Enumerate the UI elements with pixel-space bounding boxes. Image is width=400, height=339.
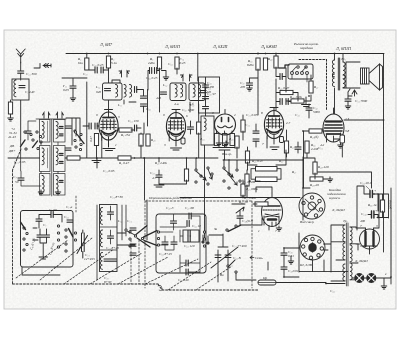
svg-text:+: + [375,209,377,213]
capacitor C23 left of can2 [161,92,167,94]
wire lever links [117,231,135,245]
coils in box2 [100,208,102,225]
wire wafer verticals [196,151,237,248]
mixer grid switch column [66,118,80,145]
wire C20 link [89,69,109,71]
svg-text:R₂₆: R₂₆ [228,137,234,141]
capacitor C48 [281,253,287,255]
antenna plug arrows [34,64,51,69]
trimmer caps B2 [60,154,64,164]
svg-text:R₁₃: R₁₃ [199,137,205,141]
wire can1 to tube [109,68,148,126]
ground right of R28 [327,177,333,182]
svg-text:7: 7 [360,224,362,228]
oscillator coil box B3 [54,174,66,196]
ground under R3 [92,146,101,163]
volume control area: resistor R24 [184,169,188,181]
dial lamps [355,273,376,282]
oscillator coil box B1 [54,120,66,143]
wire switch feed down [97,158,145,200]
resistor R6 horizontal [119,128,132,132]
ground C47 [247,86,253,91]
svg-text:L₁₀: L₁₀ [95,85,101,89]
wire inside mode box [160,214,200,273]
svg-text:ДВ: ДВ [9,144,14,148]
switch wafer A circles [195,169,197,171]
capacitor C26 in can3 [203,85,209,87]
svg-text:С₃₉ 1000: С₃₉ 1000 [182,108,195,112]
svg-text:R₆ 152: R₆ 152 [120,133,130,137]
inner cap box [183,230,199,242]
wire box1 [22,215,62,276]
tuning arrows can1 [119,71,130,77]
svg-text:50: 50 [15,180,19,184]
svg-text:С₆₄₀: С₆₄₀ [361,212,368,216]
wire right outer vertical [390,188,392,284]
svg-text:R₂₈: R₂₈ [150,138,156,142]
tube L7 tuning eye 6E1P [262,193,283,227]
svg-text:С₅₁: С₅₁ [318,146,323,150]
svg-text:С₄₉0.01: С₄₉0.01 [288,269,299,273]
wire C54 [347,92,349,104]
svg-text:С₃₅: С₃₅ [64,215,69,219]
svg-text:С₉ 50: С₉ 50 [49,208,57,212]
extra dashed diagonal to C17 [168,262,232,290]
coil L1 input tank [14,80,16,97]
svg-text:R₂₁: R₂₁ [313,85,318,89]
band coil box 2 [100,205,118,272]
wire tank down [11,100,21,140]
capacitor C20 [95,67,97,73]
svg-text:0.25: 0.25 [180,61,186,65]
svg-text:1: 1 [115,143,117,147]
svg-text:С₁₀: С₁₀ [150,171,155,175]
contacts outside box1 [74,232,76,234]
capacitor near R20 [280,74,282,80]
tuning arrows can2 [181,75,193,81]
capacitor C28 in can3 [203,97,209,99]
svg-text:61к: 61к [78,61,83,65]
tube L1 ground [103,137,115,151]
svg-text:Л₂ 6И1П: Л₂ 6И1П [164,44,181,49]
svg-text:R₂₄: R₂₄ [289,145,295,149]
svg-text:С₁₆ 8+20: С₁₆ 8+20 [106,246,119,250]
caps below box [186,260,188,266]
svg-text:41-43: 41-43 [8,135,16,139]
IF transformer 1 secondary coils [124,85,126,98]
resistor R18 [263,58,267,70]
svg-text:С₁₄: С₁₄ [127,219,132,223]
wire detector area [276,68,311,118]
capacitor C30 pair [150,68,152,74]
tube L5 6P1P output [323,108,344,142]
junction dot [257,53,259,55]
resistor R26 [235,136,239,148]
tube L1 grid cap bar [105,110,113,113]
resistor R19 [256,58,260,70]
antenna selector contacts [24,131,26,133]
wire R20 down [276,54,286,111]
svg-text:С₃₄ 130: С₃₄ 130 [128,119,139,123]
capacitor C47 [247,83,253,85]
tube L4 grid cap [270,108,278,111]
svg-text:+: + [374,189,376,193]
IF can 2 box B [189,83,205,101]
svg-text:6: 6 [186,114,188,118]
resistor between T3 T4 [241,120,245,132]
svg-text:С₁₂ 390: С₁₂ 390 [26,72,37,76]
wire R19 down [250,69,259,115]
capacitor near antenna selector [25,131,31,133]
verticals right of box2 [97,205,126,280]
wire bottom right bus [326,220,391,284]
capacitor C10 4.7 [156,175,162,177]
wire AGC bus [8,157,218,159]
wire stage1 verticals [83,123,144,158]
curl at dashed joint [158,285,162,290]
svg-text:С₃₃ 8+25: С₃₃ 8+25 [159,252,172,256]
speaker connection box [346,62,360,88]
svg-text:L₁₃: L₁₃ [189,103,195,107]
switch circles box1 right wafer [57,225,59,227]
capacitor C33 pair [89,123,91,129]
phono switch [226,229,228,231]
svg-text:С₃₄ 120: С₃₄ 120 [184,244,195,248]
svg-text:R₂₀: R₂₀ [267,57,273,61]
resistor R27 grid horizontal [309,129,322,133]
variable capacitor C17 main [211,247,238,272]
svg-text:Выход: Выход [389,200,393,209]
oscillator coil box A3 [40,174,51,196]
svg-text:R₂₇(б): R₂₇(б) [309,135,319,139]
capacitor C63 [370,191,372,198]
transformer Tr2 [343,225,345,242]
capacitor C32 [187,221,189,227]
oscillator coil box A2 [40,146,51,172]
svg-text:400: 400 [360,219,365,223]
svg-text:Л₁ 6И7: Л₁ 6И7 [99,42,113,47]
svg-text:С₆₆: С₆₆ [330,289,335,293]
ground under R1 [8,116,14,121]
capacitor C35 C36 [67,220,73,222]
switch circles box1 left [23,227,25,229]
svg-text:С₂₂ В: С₂₂ В [233,256,241,260]
wire C63 area [357,186,389,230]
svg-text:12+495: 12+495 [84,257,95,261]
rectifier tube L6 [360,228,380,250]
svg-text:820к: 820к [247,63,254,67]
svg-text:Пр: Пр [262,276,267,280]
resistor R2 horizontal on AGC bus [118,156,131,160]
tube L2 ground [171,138,182,151]
ground under C10 [154,177,187,187]
wire C10 R24 tops [159,158,187,175]
svg-text:R₂₂ 0.47: R₂₂ 0.47 [277,86,290,90]
capacitor C26 right of can2 [200,91,206,93]
dashed linkage diagonals [16,238,198,284]
lever box1 left [21,222,26,230]
svg-text:4.7: 4.7 [152,176,157,180]
svg-text:420: 420 [156,96,161,100]
switch contacts mid [74,130,76,132]
dashed verticals mid bottom [76,196,139,284]
svg-text:С₄.₅: С₄.₅ [13,175,19,179]
dashed enclosure bottom second [158,284,258,290]
svg-text:240к: 240к [148,61,155,65]
capacitor column left of lever [65,126,71,128]
wire socket2 to tr2 [299,233,348,272]
svg-text:L₁₁: L₁₁ [117,103,122,107]
wire L2 plate [190,102,199,158]
resistor R9 [106,56,110,68]
capacitor C50 [306,108,312,110]
svg-text:ДВ+: ДВ+ [8,149,16,153]
capacitor pair T3 T4 [253,131,259,133]
Tr2 taps [331,225,360,281]
resistor R13 right of L2 [197,122,201,134]
capacitor C7 [36,219,42,221]
transformer Tr1 [332,60,334,77]
wire C48 area [284,248,299,277]
wire left bank tops [21,119,66,196]
svg-text:С₁₃ 8+30: С₁₃ 8+30 [110,195,123,199]
capacitor C11 grid [70,86,76,88]
resistor R28-20 horizontal [310,177,323,181]
capacitor C39 under L7 [237,216,243,218]
svg-text:Л₄ 6Ж6П: Л₄ 6Ж6П [260,44,278,49]
svg-text:Л₆ 6Ц4П: Л₆ 6Ц4П [331,208,345,212]
tube L3 6X2P duodiode [215,110,236,136]
capacitor C9 top [51,212,53,218]
capacitor C12 [18,71,24,73]
power switch Vk [227,265,229,267]
capacitor C49 [281,267,287,269]
capacitor C46 [295,147,301,149]
tuning arrows bank top [43,113,51,119]
svg-text:9: 9 [163,113,165,117]
wire right mid [304,131,372,188]
box edge contacts right [203,231,205,233]
svg-text:С₃₆: С₃₆ [146,107,151,111]
svg-text:Л₆ 6Е1П: Л₆ 6Е1П [242,180,256,184]
capacitor stack left of mode box [130,228,136,230]
svg-text:L₁₂: L₁₂ [162,83,168,87]
svg-text:430: 430 [209,85,214,89]
resistor R29 [256,167,278,172]
svg-text:R₂₇: R₂₇ [291,170,297,174]
capacitor C54 [345,99,351,101]
ground left bank [38,190,44,195]
ground mid [216,141,222,146]
svg-text:С₁₉: С₁₉ [83,72,88,76]
resistor R29b [313,162,317,174]
coil can3 lower [204,118,206,131]
capacitor C21 after can1 [135,87,137,93]
svg-text:8+30: 8+30 [104,280,112,284]
AGC resistor R12 [67,156,80,160]
svg-text:R₃₉ 1к: R₃₉ 1к [367,203,377,207]
svg-text:С₁ 240: С₁ 240 [25,90,35,94]
svg-text:3: 3 [164,143,166,147]
svg-text:С₄₄: С₄₄ [245,123,250,127]
wire antenna down [20,62,22,80]
wire T6 grid feed [256,187,272,193]
ground under C11 [70,96,76,101]
svg-text:Вид снизу: Вид снизу [300,220,315,224]
capacitor in can1 [105,89,111,91]
contacts right of box2 [129,231,131,233]
svg-text:С₆₅: С₆₅ [360,244,365,248]
fuse Pr [258,280,276,285]
svg-text:С₁₂ 0.05: С₁₂ 0.05 [103,169,115,173]
wire stage2 top [148,68,177,112]
switch wafer B circles [223,167,225,169]
volume pot with arrow [232,204,244,213]
IF can 1 tank box [103,83,123,100]
svg-text:С₄₂: С₄₂ [295,113,300,117]
capacitor pair under R22 [280,99,282,105]
resistor R1 [8,102,12,114]
svg-text:Л₃ 6Х2П: Л₃ 6Х2П [212,44,229,49]
resistor R7b [146,134,150,146]
svg-text:7: 7 [275,229,277,233]
ground C54 [345,104,351,109]
svg-text:R₂₉ 240к: R₂₉ 240к [154,161,167,165]
ground under L7 [276,226,282,231]
svg-text:0.05: 0.05 [63,88,69,92]
output jack resistor R39 [380,200,384,212]
svg-text:С₁₁а: С₁₁а [66,205,73,209]
svg-text:Зв: Зв [214,227,218,231]
wire lower bus [180,197,300,199]
svg-text:С₂₇ 68: С₂₇ 68 [185,206,194,210]
svg-text:3: 3 [376,224,378,228]
wire rectifier [356,194,379,254]
ground near C30 [163,75,169,80]
svg-text:L₁₆: L₁₆ [117,219,123,223]
svg-text:Вкл.гр.: Вкл.гр. [222,152,232,156]
svg-text:Ш₁ 6.3В: Ш₁ 6.3В [299,263,312,267]
antenna trimmer symbol [348,89,357,96]
socket pickup view circle [299,193,325,219]
mode switch solid box [156,214,206,273]
resistor R21 [309,81,313,93]
capacitor C39 [188,127,194,129]
svg-text:R₂₉-120: R₂₉-120 [317,165,329,169]
svg-text:4-а: 4-а [174,102,179,106]
wire T4 area [243,115,298,157]
capacitor C8 pair [37,235,43,237]
resistor R4 [85,58,89,70]
ground bar clavier [302,97,311,107]
svg-text:передача: передача [300,46,313,50]
svg-text:С₃₂: С₃₂ [168,62,173,66]
tube L4 6Zh6P [264,111,283,140]
resistor R5 [157,57,161,69]
svg-text:2.7: 2.7 [286,121,291,125]
svg-text:470: 470 [240,85,245,89]
tube L2 cathode resistor [181,138,185,144]
wire can3 [205,77,207,116]
capacitor C4 C5 [18,178,24,180]
antenna [16,49,25,63]
svg-text:3.8: 3.8 [345,129,350,133]
ground in box1 [39,244,48,259]
wire mid area [232,147,286,230]
svg-text:8: 8 [261,111,263,115]
clavier keys box [288,64,313,79]
resistor R30 [245,174,249,186]
trimmer caps B1 [60,127,64,136]
svg-text:Л₆ 6Ц4П: Л₆ 6Ц4П [354,259,368,263]
junction dots buses [96,53,304,161]
switch lever mixer [74,131,76,133]
ground C48 [288,259,294,264]
svg-text:5.1к: 5.1к [111,61,117,65]
tube L1 6I7 [99,112,118,141]
svg-text:С₂₀ 0.25: С₂₀ 0.25 [92,63,104,67]
wire can2 bus drop [198,54,205,168]
wire fuse to transformer [268,262,326,283]
resistor right of T4 [284,141,288,153]
capacitor C22 stack [141,96,147,98]
svg-text:С₄₄ 0.05: С₄₄ 0.05 [246,113,258,117]
svg-text:Л₅ 6П1П: Л₅ 6П1П [335,46,352,51]
IF can 2 box A [170,83,186,101]
clavier contacts [291,66,309,75]
capacitor below can3 [203,107,209,109]
socket 2 bottom view [300,235,325,260]
dashed enclosure left [13,149,159,284]
speaker [361,64,383,90]
svg-text:5000: 5000 [313,110,320,114]
capacitor C27 [189,213,191,219]
resistor R31 [256,177,278,182]
svg-text:9: 9 [96,113,98,117]
lever left of banks [33,141,38,148]
resistor R33 horizontal above L7 [255,202,268,206]
capacitor C1 [19,86,25,88]
wire right vertical from bus [383,54,385,253]
ground lamps [381,284,387,289]
oscillator coil box A1 [40,120,51,143]
svg-text:R₂₈-20: R₂₈-20 [309,183,319,187]
band switch box 1 [21,211,74,268]
svg-text:R₂ 0.47: R₂ 0.47 [118,161,129,165]
oscillator coil box B2 [54,146,66,172]
clavier feed wire [279,65,289,68]
wire left vertical column [86,54,88,159]
resistor R30 [305,141,309,153]
tuning arrows bank B top [56,113,64,119]
svg-text:R₂₃ 150к: R₂₃ 150к [289,95,302,99]
svg-text:С₁₇ 7+490: С₁₇ 7+490 [232,244,247,248]
antenna selector lever [21,140,26,147]
wire phono to T6 [241,218,262,225]
resistor R22 [280,90,293,94]
switch small top [202,241,204,243]
svg-text:звукосн.: звукосн. [328,196,341,200]
tube L3 diode load resistors [215,134,220,146]
resistor R23 [291,99,304,103]
lever box1 right [69,229,74,238]
svg-text:1: 1 [258,229,260,233]
switch contacts left of banks [36,131,38,133]
wire Tr1 [335,54,347,114]
svg-text:9: 9 [212,111,214,115]
resistor R20 [274,56,278,68]
svg-text:С₅₄ 7000: С₅₄ 7000 [355,99,368,103]
